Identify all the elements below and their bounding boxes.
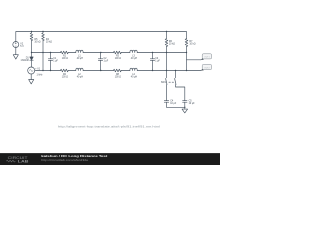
wire C3 top lead xyxy=(152,53,154,59)
ground (under V1) xyxy=(29,80,34,84)
wire L1 to C2 node xyxy=(83,52,113,54)
svg-text:1 μF: 1 μF xyxy=(53,61,58,63)
svg-text:10 μF: 10 μF xyxy=(170,103,177,105)
resistor R4 xyxy=(42,32,45,41)
capacitor C4 xyxy=(164,101,168,103)
wire to flag1 xyxy=(187,59,201,61)
wire C1 top lead xyxy=(50,53,52,59)
inductor L2 xyxy=(76,68,83,70)
label C4 value xyxy=(170,101,177,106)
wire C5 bottom lead xyxy=(184,102,186,107)
ground (bottom right) xyxy=(182,109,188,113)
switch SW1 xyxy=(166,71,185,101)
svg-text:OUT2: OUT2 xyxy=(204,67,210,69)
label C2 value xyxy=(104,58,109,63)
wire join caps xyxy=(167,106,185,108)
svg-text:SW1: SW1 xyxy=(161,82,167,84)
wire node A to D1 xyxy=(31,53,33,57)
svg-text:10 kΩ: 10 kΩ xyxy=(34,41,40,43)
diode D1 xyxy=(30,57,33,60)
label R8 value xyxy=(115,74,122,79)
wire C1 bottom lead xyxy=(50,60,52,70)
svg-text:1 kHz: 1 kHz xyxy=(37,75,44,77)
wire C4 bottom lead xyxy=(166,102,168,107)
label R2 value xyxy=(62,74,69,79)
label SW1 xyxy=(161,82,167,84)
label L2 value xyxy=(77,74,84,79)
svg-text:100 Ω: 100 Ω xyxy=(62,58,69,60)
resistor R2 xyxy=(61,69,69,72)
footer CircuitLab logo xyxy=(6,155,28,164)
label C1 value xyxy=(53,58,58,63)
wire V1 bottom to ground xyxy=(30,74,32,80)
label V2 value xyxy=(20,44,24,49)
wire bottom rail to flag2 xyxy=(137,70,201,72)
wire R4 down to top ladder rail xyxy=(42,41,44,53)
svg-text:http://alignment-hop.translate: http://alignment-hop.translate.aits/t-pl… xyxy=(58,124,160,128)
voltage source V2 xyxy=(13,42,19,48)
wire C3 bottom lead xyxy=(152,60,154,70)
wire R5 to node A xyxy=(31,41,33,53)
label L1 value xyxy=(77,56,84,61)
junction node dots xyxy=(31,31,187,108)
footer bar xyxy=(0,154,220,166)
inductor L3 xyxy=(130,50,137,52)
resistor R6 xyxy=(165,32,168,47)
wire R8 to L4 xyxy=(121,70,130,72)
svg-text:1N4148: 1N4148 xyxy=(21,60,30,62)
svg-text:1 μF: 1 μF xyxy=(104,61,109,63)
svg-text:+ V1: + V1 xyxy=(35,69,41,71)
capacitor C5 xyxy=(183,101,187,103)
label L4 value xyxy=(131,74,138,79)
voltage source V1 (AC) xyxy=(28,67,35,74)
capacitor C2 xyxy=(98,59,102,61)
svg-text:10 kΩ: 10 kΩ xyxy=(46,41,52,43)
label R7 value xyxy=(189,41,195,46)
wire R7 down to bottom rail xyxy=(186,46,188,70)
capacitor C1 xyxy=(48,59,52,61)
wire R1 to L1 xyxy=(68,52,76,54)
label L3 value xyxy=(131,56,138,61)
label D1 value xyxy=(21,58,30,63)
wire R2 to L2 xyxy=(68,70,76,72)
resistor R5 xyxy=(30,32,33,41)
svg-text:10 kΩ: 10 kΩ xyxy=(169,44,175,46)
svg-text:http://circuitlab.com/c/kcd32e: http://circuitlab.com/c/kcd32e xyxy=(41,158,88,162)
label R3 value xyxy=(115,56,122,61)
inductor L1 xyxy=(76,50,83,52)
resistor R8 xyxy=(114,69,122,72)
wire stub to ground xyxy=(184,107,186,109)
wire C2 bottom lead xyxy=(100,60,102,70)
wire L2 to C2 node bottom xyxy=(83,70,113,72)
svg-text:40 μH: 40 μH xyxy=(131,58,138,60)
wire R6 down across rails xyxy=(166,46,168,70)
wire bottom ladder rail start xyxy=(35,70,60,72)
label C5 value xyxy=(189,101,196,106)
label R4 value xyxy=(46,39,52,44)
label R1 value xyxy=(62,56,69,61)
svg-text:100 Ω: 100 Ω xyxy=(115,58,122,60)
resistor R7 xyxy=(185,39,188,47)
wire top rail from V2 to R7 corner xyxy=(16,32,187,42)
resistor R1 xyxy=(61,51,69,54)
svg-text:40 μH: 40 μH xyxy=(77,77,84,79)
resistor R3 xyxy=(114,51,122,54)
svg-text:10 kΩ: 10 kΩ xyxy=(189,44,195,46)
svg-text:10 μF: 10 μF xyxy=(189,103,196,105)
wire R3 to L3 xyxy=(121,52,130,54)
svg-text:40 μH: 40 μH xyxy=(131,77,138,79)
capacitor C3 xyxy=(150,59,154,61)
label V1 value xyxy=(35,69,43,77)
ground (under V2) xyxy=(13,55,18,59)
label C3 value xyxy=(155,58,160,63)
label R5 value xyxy=(34,39,40,44)
flag probe OUT1 xyxy=(201,54,212,60)
flag probe OUT2 xyxy=(201,65,212,71)
svg-text:1 μF: 1 μF xyxy=(155,61,160,63)
wire D1 to V1 xyxy=(31,60,33,67)
svg-text:100 Ω: 100 Ω xyxy=(62,77,69,79)
inductor L4 xyxy=(130,68,137,70)
wire top ladder rail y52 xyxy=(32,52,61,54)
svg-text:OUT1: OUT1 xyxy=(204,57,210,59)
wire C2 top lead xyxy=(100,53,102,59)
svg-text:5 V: 5 V xyxy=(20,46,24,48)
label R6 value xyxy=(169,41,175,46)
svg-text:LAB: LAB xyxy=(18,159,29,164)
svg-text:40 μH: 40 μH xyxy=(77,58,84,60)
wire vertical link x42.5 xyxy=(42,53,44,71)
wire V2 bottom to ground xyxy=(15,48,17,55)
wire L3 to C3 node xyxy=(137,52,186,54)
svg-text:100 Ω: 100 Ω xyxy=(115,77,122,79)
